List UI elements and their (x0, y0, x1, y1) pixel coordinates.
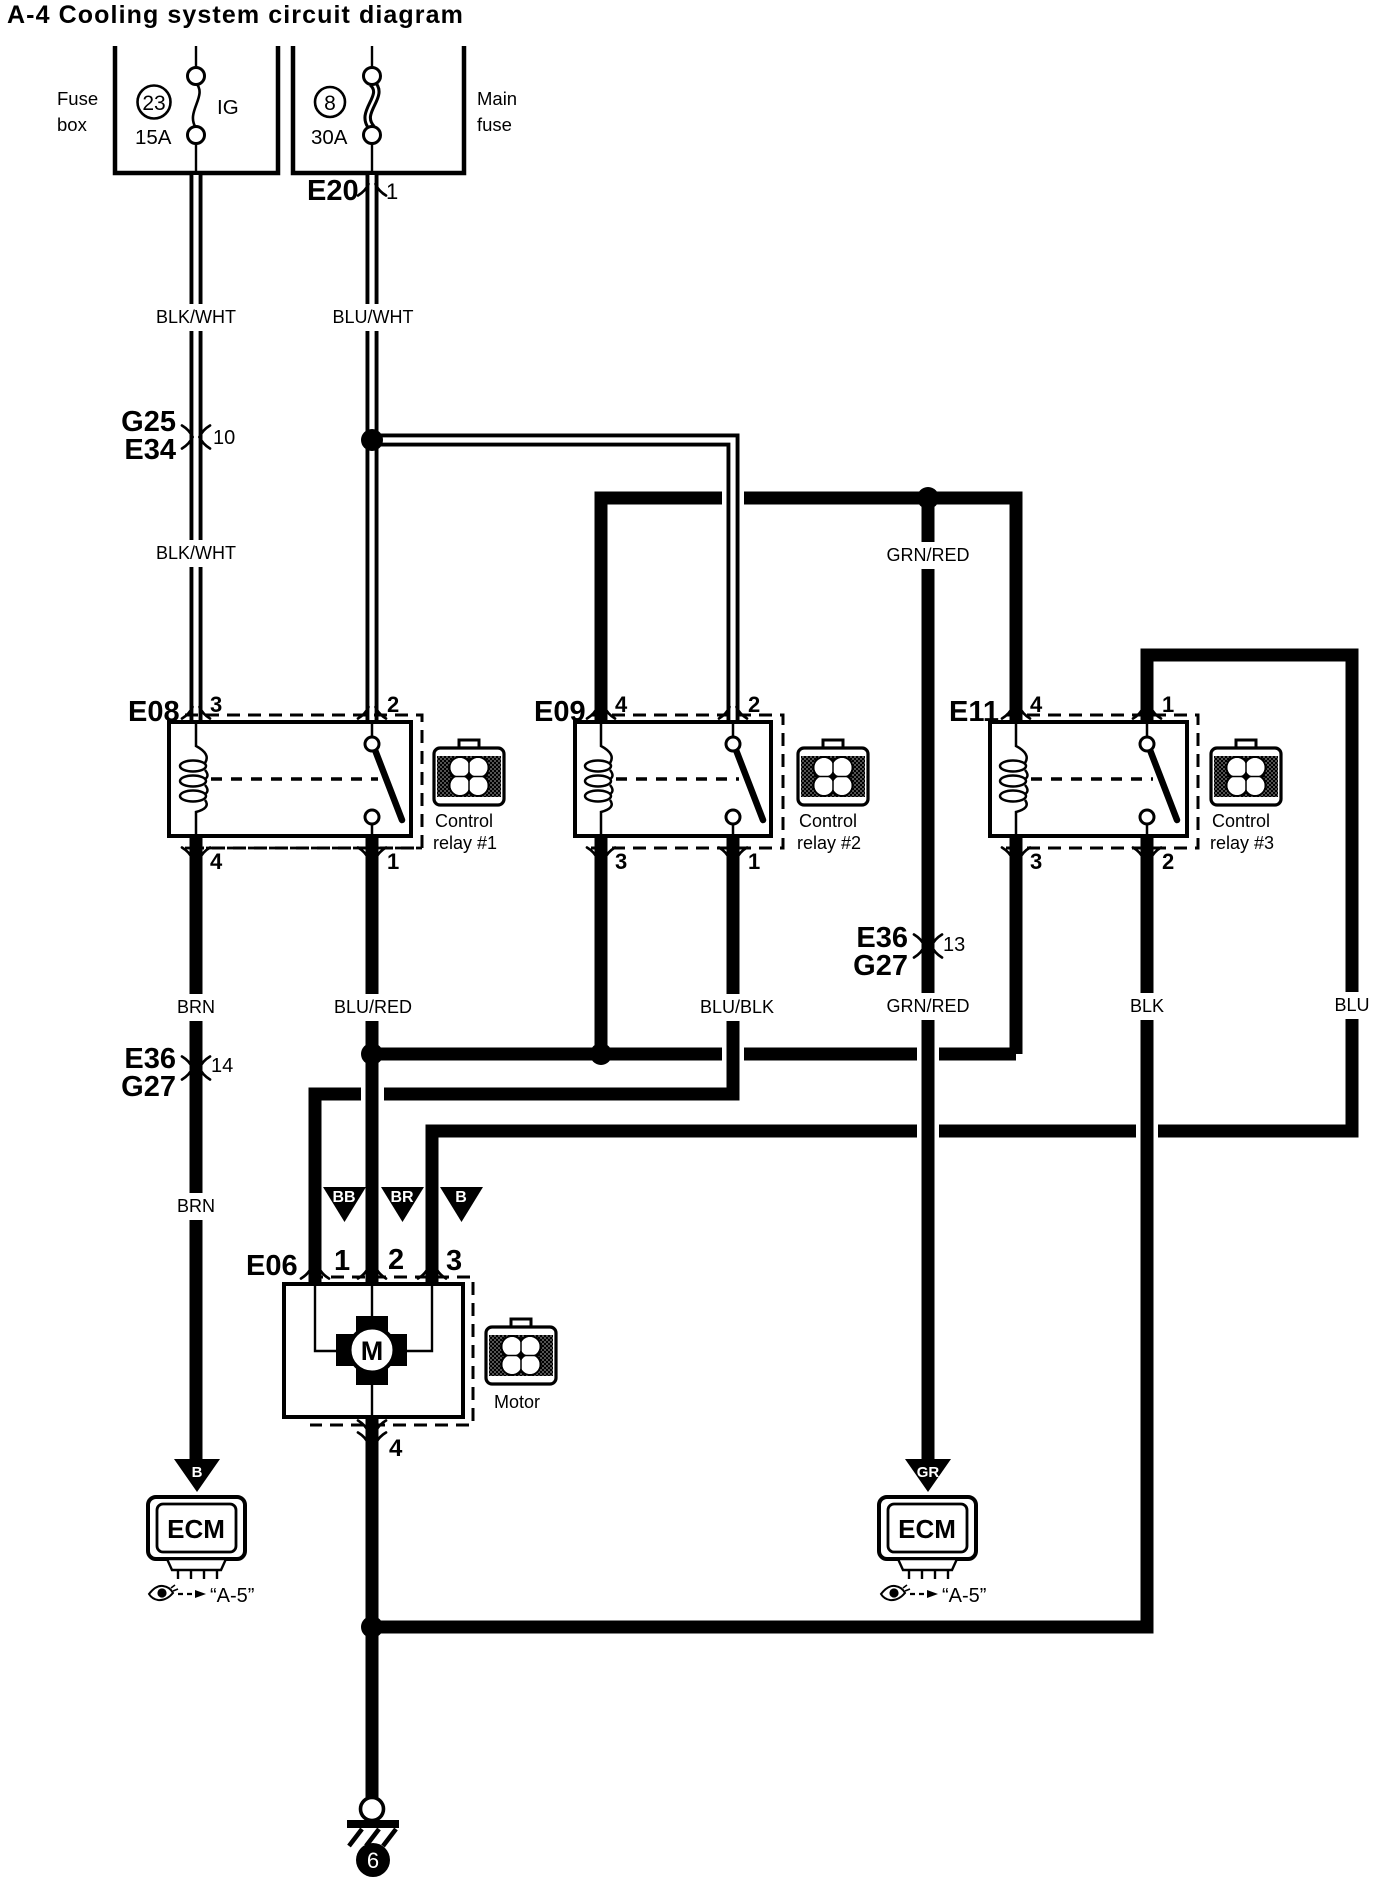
fuse 8 (main 30A) (364, 46, 381, 171)
label Motor (494, 1392, 540, 1412)
wire BLU/RED (E08 pin 1 down to motor E06 pin 2) (366, 836, 379, 1284)
label Main fuse (477, 88, 517, 135)
svg-text:IG: IG (217, 96, 239, 119)
E36/G27 pin 14 (211, 1055, 233, 1077)
ground symbol (347, 1798, 399, 1847)
E08 pin 2 connector mark (358, 707, 386, 719)
svg-text:4: 4 (615, 692, 628, 717)
E11 pin 3 connector mark (1002, 848, 1030, 860)
wire label BLU/BLK (700, 994, 774, 1021)
wire GRN/RED feeder right segment to relay E11 pin 4 (744, 498, 1016, 722)
E36/G27 pin14 connector mark upper (182, 1057, 210, 1069)
E06 pin 2 (388, 1244, 404, 1276)
svg-text:E11: E11 (949, 696, 999, 728)
E09 pin 3 connector mark (587, 848, 615, 860)
wire label BLU/RED (334, 994, 412, 1021)
svg-text:2: 2 (387, 692, 399, 717)
svg-text:Main: Main (477, 88, 517, 109)
relay Control relay #2 box (575, 722, 771, 836)
connector E08 label (128, 696, 180, 728)
svg-text:BLU/WHT: BLU/WHT (333, 307, 414, 327)
junction dot at BLU/RED and bus (361, 1043, 383, 1065)
ground id 6 (356, 1843, 390, 1877)
right ECM (879, 1497, 976, 1579)
relay Control relay #2 switch (726, 722, 763, 836)
svg-text:Control: Control (435, 811, 493, 831)
E06 pin 3 connector mark (418, 1267, 446, 1279)
svg-text:2: 2 (748, 692, 760, 717)
E09 pin 2 (748, 692, 760, 717)
E11 pin 4 connector mark (1002, 707, 1030, 719)
wire code flag BB (BLU/BLK) (323, 1187, 366, 1222)
svg-text:BRN: BRN (177, 1196, 215, 1216)
wire BLU (E11 pin 1 loop over right side down to motor E06 pin 3) (432, 655, 1352, 1284)
G25/E34 connector mark lower (182, 437, 210, 449)
connector E36/G27 (pin 14) (121, 1043, 176, 1103)
svg-text:A-4 Cooling system circuit dia: A-4 Cooling system circuit diagram (7, 1, 464, 29)
svg-text:Control: Control (799, 811, 857, 831)
motor internal wiring (315, 1284, 432, 1417)
E11 pin 2 (1162, 849, 1174, 874)
fuse rating 15A (135, 126, 172, 149)
radiator fan icon for Control relay #1 (434, 740, 504, 805)
wire BRN (E08 pin 4 to ECM arrow) (190, 836, 203, 1459)
E06 pin 4 connector mark upper (358, 1421, 386, 1433)
relay Control relay #1 coil (180, 722, 208, 836)
relay Control relay #3 coil (1000, 722, 1028, 836)
connector E06 dashed boundary (310, 1277, 473, 1425)
E11 pin 3 (1030, 849, 1042, 874)
fuse rating 30A (311, 126, 348, 149)
motor M symbol (336, 1316, 407, 1385)
wire code flag B (BLU) (440, 1187, 483, 1222)
label Control relay #2 (797, 811, 861, 853)
svg-text:4: 4 (389, 1435, 403, 1462)
wire label GRN/RED lower (886, 993, 969, 1020)
E09 pin 1 (748, 849, 760, 874)
svg-text:14: 14 (211, 1055, 233, 1077)
svg-text:4: 4 (1030, 692, 1043, 717)
wire E11 pin 3 down to junction row (1010, 836, 1023, 1054)
E06 pin 2 connector mark (358, 1267, 386, 1279)
left ECM reference eye A-5 (149, 1585, 254, 1607)
svg-text:BLU/BLK: BLU/BLK (700, 997, 774, 1017)
svg-text:BLK/WHT: BLK/WHT (156, 307, 236, 327)
svg-text:BRN: BRN (177, 997, 215, 1017)
wire BLU/BLK (E09 pin 1 to motor E06 pin 1) (315, 836, 733, 1284)
wire label BLK/WHT upper (156, 304, 236, 331)
svg-text:8: 8 (324, 92, 336, 115)
svg-text:relay #3: relay #3 (1210, 833, 1274, 853)
svg-text:BLU: BLU (1334, 995, 1369, 1015)
fuse 23 (IG 15A) (188, 46, 205, 171)
connector E08 dashed boundary (185, 715, 422, 848)
E08 pin 1 connector mark (358, 848, 386, 860)
svg-text:BLU/RED: BLU/RED (334, 997, 412, 1017)
label Fuse box (57, 88, 98, 135)
svg-text:BR: BR (390, 1189, 414, 1206)
svg-text:E34: E34 (124, 434, 176, 466)
wire label GRN/RED upper (886, 542, 969, 569)
E06 pin 3 (446, 1245, 462, 1277)
svg-text:E20: E20 (307, 175, 359, 207)
E08 pin 4 (210, 849, 223, 874)
connector E09 label (534, 696, 586, 728)
E20 connector mark (358, 184, 386, 196)
svg-text:1: 1 (334, 1245, 350, 1277)
relay Control relay #3 box (990, 722, 1187, 836)
svg-text:3: 3 (210, 692, 222, 717)
svg-text:GRN/RED: GRN/RED (886, 996, 969, 1016)
E06 pin 4 connector mark lower (358, 1433, 386, 1445)
fuse number 23 (circled) (138, 86, 171, 119)
svg-text:3: 3 (446, 1245, 462, 1277)
svg-text:2: 2 (388, 1244, 404, 1276)
svg-text:10: 10 (213, 427, 235, 449)
wire label BLU/WHT (333, 304, 414, 331)
arrow GR to right ECM (905, 1459, 951, 1492)
E09 pin 4 connector mark (587, 707, 615, 719)
arrow B to left ECM (174, 1459, 220, 1492)
motor housing box (284, 1284, 463, 1417)
svg-text:B: B (455, 1189, 467, 1206)
E11 pin 1 connector mark (1133, 707, 1161, 719)
E36/G27 pin 13 (943, 934, 965, 956)
svg-text:E08: E08 (128, 696, 180, 728)
junction GRN/RED tee (917, 487, 939, 509)
wire BLU/WHT (main fuse via E20 down to relay E08 pin 2), double line (366, 175, 379, 722)
E09 pin 2 connector mark (719, 707, 747, 719)
relay Control relay #2 coil (585, 722, 613, 836)
svg-text:box: box (57, 114, 88, 135)
connector E11 dashed boundary (1006, 715, 1198, 848)
svg-text:fuse: fuse (477, 114, 512, 135)
svg-text:1: 1 (386, 179, 398, 204)
junction dot ground bus (361, 1616, 383, 1638)
relay Control relay #1 box (169, 722, 411, 836)
svg-text:E09: E09 (534, 696, 586, 728)
E11 pin 2 connector mark (1133, 848, 1161, 860)
wire label BRN upper (176, 994, 216, 1021)
svg-text:3: 3 (1030, 849, 1042, 874)
left ECM (148, 1497, 245, 1579)
G25/E34 connector mark upper (182, 426, 210, 438)
G25/E34 pin 10 (213, 427, 235, 449)
relay Control relay #3 switch (1140, 722, 1177, 836)
connector E06 label (246, 1250, 298, 1282)
E36/G27 pin13 connector mark lower (914, 946, 942, 958)
svg-text:B: B (192, 1464, 203, 1481)
wire GRN/RED feeder left segment to relay E09 pin 4 (601, 498, 722, 722)
wire label BLK/WHT lower (156, 540, 236, 567)
svg-text:GR: GR (917, 1464, 940, 1481)
svg-text:M: M (361, 1336, 384, 1366)
svg-text:E06: E06 (246, 1250, 298, 1282)
label Control relay #1 (433, 811, 497, 853)
E09 pin 4 (615, 692, 628, 717)
junction dot at E09 pin 3 and bus (590, 1043, 612, 1065)
relay Control relay #3 actuation dashed link (1031, 777, 1153, 781)
wire E09 pin 3 to junction (595, 836, 608, 1054)
label Control relay #3 (1210, 811, 1274, 853)
svg-text:2: 2 (1162, 849, 1174, 874)
svg-text:1: 1 (748, 849, 760, 874)
E08 pin 3 connector mark (182, 707, 210, 719)
wire GRN/RED vertical to ECM (922, 498, 935, 1459)
wire label BRN lower (176, 1193, 216, 1220)
E20 pin 1 (386, 179, 398, 204)
junction at E20 wire and branch (361, 429, 383, 451)
radiator fan icon for Motor (486, 1319, 556, 1384)
E11 pin 1 (1162, 692, 1174, 717)
relay Control relay #2 actuation dashed link (616, 777, 739, 781)
svg-text:BLK/WHT: BLK/WHT (156, 543, 236, 563)
radiator fan icon for Control relay #2 (798, 740, 868, 805)
connector E20 (307, 175, 359, 207)
svg-text:3: 3 (615, 849, 627, 874)
svg-text:30A: 30A (311, 126, 348, 149)
E06 pin 1 (334, 1245, 350, 1277)
E08 pin 2 (387, 692, 399, 717)
svg-text:6: 6 (367, 1848, 379, 1873)
E08 pin 1 (387, 849, 399, 874)
connector G25/E34 (121, 406, 176, 466)
svg-text:BB: BB (332, 1189, 355, 1206)
svg-text:Control: Control (1212, 811, 1270, 831)
E36/G27 pin14 connector mark lower (182, 1068, 210, 1080)
wire motor E06 pin 4 to ground (366, 1417, 379, 1798)
relay Control relay #1 actuation dashed link (211, 777, 378, 781)
svg-text:13: 13 (943, 934, 965, 956)
svg-text:Motor: Motor (494, 1392, 540, 1412)
wire label BLU (1333, 992, 1371, 1019)
right ECM reference eye A-5 (881, 1585, 986, 1607)
svg-text:4: 4 (210, 849, 223, 874)
svg-text:1: 1 (1162, 692, 1174, 717)
svg-text:23: 23 (142, 92, 165, 115)
relay Control relay #1 switch (365, 722, 402, 836)
E09 pin 3 (615, 849, 627, 874)
E08 pin 4 connector mark (182, 848, 210, 860)
svg-text:G27: G27 (121, 1071, 176, 1103)
E08 pin 3 (210, 692, 222, 717)
wire BLK (E11 pin 2 down to ground run) (1141, 836, 1154, 1627)
svg-text:relay #2: relay #2 (797, 833, 861, 853)
wire BLK/WHT (fuse 23 to relay E08 pin 3), double line (190, 175, 203, 722)
wire BLU/WHT branch (junction to relay E09 pin 2), double line (372, 440, 733, 722)
title (7, 1, 464, 29)
E09 pin 1 connector mark (719, 848, 747, 860)
E36/G27 pin13 connector mark upper (914, 935, 942, 947)
connector E36/G27 (pin 13) (853, 922, 908, 982)
svg-text:1: 1 (387, 849, 399, 874)
ground bus wire to BLK (372, 1621, 1154, 1634)
wire label BLK (1128, 993, 1166, 1020)
svg-text:G27: G27 (853, 950, 908, 982)
svg-text:15A: 15A (135, 126, 172, 149)
radiator fan icon for Control relay #3 (1211, 740, 1281, 805)
svg-text:BLK: BLK (1130, 996, 1164, 1016)
E11 pin 4 (1030, 692, 1043, 717)
fuse box (right, main fuse) outline (293, 46, 464, 173)
wire code flag BR (BLU/RED) (381, 1187, 424, 1222)
fuse number 8 (circled) (315, 87, 345, 117)
fuse box (left) outline (115, 46, 278, 173)
svg-text:Fuse: Fuse (57, 88, 98, 109)
E06 pin 1 connector mark (301, 1267, 329, 1279)
label IG (217, 96, 239, 119)
svg-text:GRN/RED: GRN/RED (886, 545, 969, 565)
bus wire junction row y=1054 (372, 1048, 1016, 1061)
connector E11 label (949, 696, 999, 728)
connector E09 dashed boundary (591, 715, 783, 848)
svg-text:relay #1: relay #1 (433, 833, 497, 853)
